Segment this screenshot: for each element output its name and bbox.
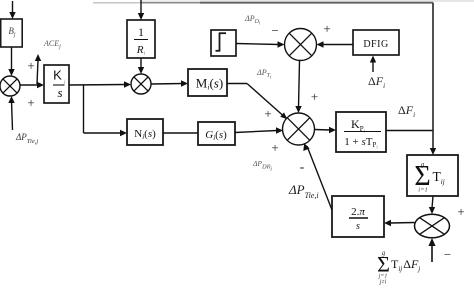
svg-text:s: s [57,85,62,100]
wire K block to S2 [69,81,131,87]
svg-text:−: − [271,23,278,38]
svg-text:+: + [271,140,278,155]
wire sum box to S5 [429,196,435,214]
svg-text:DFIG: DFIG [363,39,388,50]
wire drop to 1/R box [138,0,144,20]
svg-text:-: - [300,160,305,175]
wire S4 to K_P block [315,127,337,133]
svg-text:+: + [27,58,34,73]
svg-text:ΔFi: ΔFi [398,103,415,119]
block 1/R_i [127,20,155,58]
svg-text:TijΔFj: TijΔFj [391,257,420,273]
block DFIG [353,30,399,55]
wire S3 down to S4 [295,61,301,114]
block step load (integrator symbol) [211,30,236,56]
summing junction S1 [0,76,20,96]
wire DFIG to S3 [317,41,354,47]
block G_i(s) [198,122,235,145]
svg-text:ΔFi: ΔFi [368,74,385,90]
svg-text:Ni(s): Ni(s) [134,128,156,141]
summing junction S5 [415,214,450,238]
svg-text:j≠i: j≠i [379,280,387,286]
wire branch down to N block [84,85,128,136]
block B_j [1,19,23,47]
svg-text:1: 1 [138,25,144,39]
node label sum T_ij dF_j [377,249,420,286]
svg-text:Gi(s): Gi(s) [205,129,227,142]
summing junction S4 [283,113,315,145]
wire dP_tie,j input arrow [8,96,14,130]
block M_i(s) [188,69,227,96]
wire G to S4 [235,127,283,133]
wire M block diagonal to S4 [227,84,287,120]
svg-text:+: + [311,89,318,104]
wire drop to B box [9,1,15,19]
svg-text:+: + [323,21,330,36]
svg-text:Mi(s): Mi(s) [196,76,223,92]
svg-text:K: K [53,68,62,83]
svg-text:+: + [457,204,464,219]
wire top feedback line [93,0,474,3]
block K_P / (1+sT_P) [336,112,386,152]
wire S1 to K block [20,82,44,88]
block 2pi/s [332,196,384,237]
svg-text:2.π: 2.π [351,206,365,218]
wire bottom input into S5 [428,238,435,262]
block K_j/s [44,65,69,103]
block N_i(s) [127,119,163,145]
wire B box to sum S1 [8,47,14,76]
svg-text:i=1: i=1 [418,187,427,194]
svg-text:+: + [27,95,34,110]
wire N to G [163,132,198,134]
svg-text:+: + [264,106,271,121]
wire 2pi/s diagonal to S4 [303,143,332,210]
wire K_P output to right rail [386,130,434,132]
wire S5 to 2pi/s block [384,220,415,226]
wire S2 to M block [151,80,188,86]
summing junction S2 [131,74,151,94]
summing junction S3 [285,29,317,61]
block sum T_ij [407,155,458,196]
wire ACE_j tap arrow [35,54,41,84]
wire step block to S3 [236,41,285,47]
wire 1/R to S2 [138,58,144,74]
svg-text:−: − [444,247,451,262]
wire right rail vertical [430,3,436,155]
svg-text:s: s [356,221,360,232]
wire dF_i up into DFIG [370,56,376,73]
